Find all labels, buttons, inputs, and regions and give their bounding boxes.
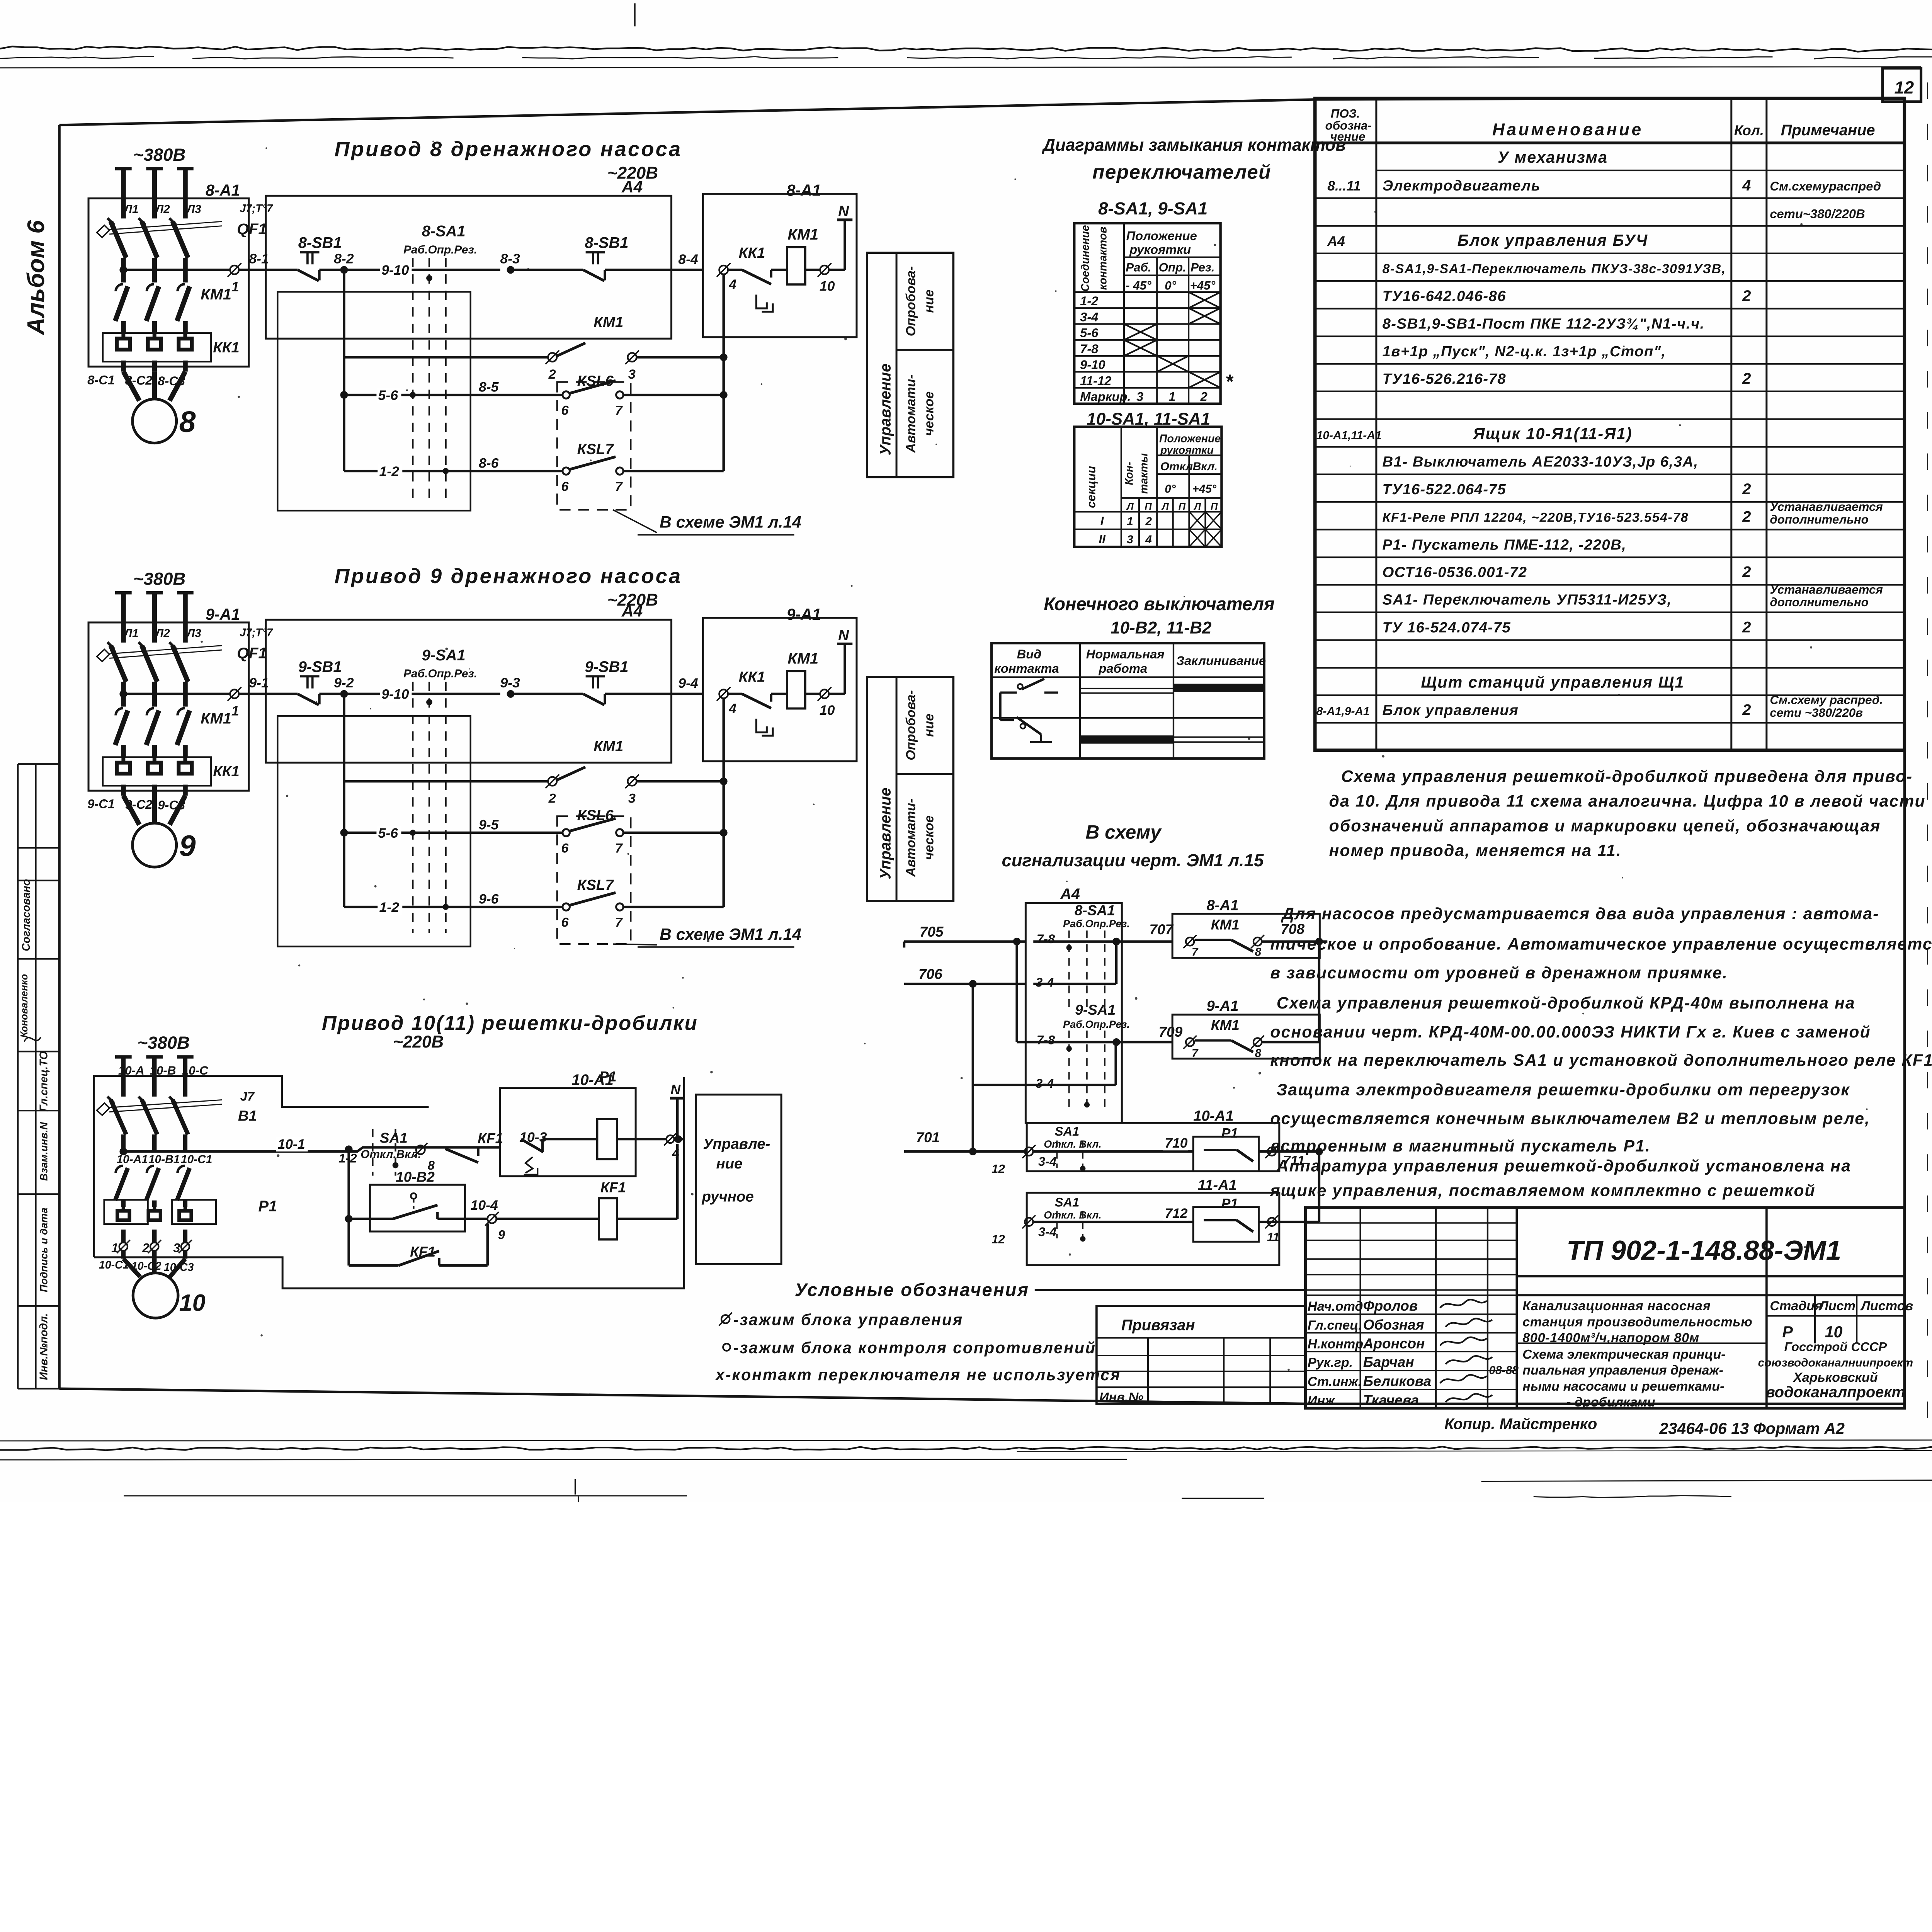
svg-text:КК1: КК1 <box>213 339 240 356</box>
svg-text:Кол.: Кол. <box>1734 122 1764 138</box>
svg-text:Рез.: Рез. <box>1190 261 1215 274</box>
svg-text:кнопок на переключатель SA1: кнопок на переключатель SA1 и установкой… <box>1270 1051 1932 1070</box>
svg-text:1: 1 <box>231 703 239 718</box>
svg-text:Коноваленко: Коноваленко <box>19 974 30 1038</box>
neutral N (drive 8) <box>843 220 847 270</box>
svg-text:Л2: Л2 <box>155 627 170 640</box>
svg-text:9-А1: 9-А1 <box>206 605 240 623</box>
svg-text:8-SB1: 8-SB1 <box>585 235 629 252</box>
svg-text:J7;T°7: J7;T°7 <box>240 627 273 639</box>
svg-text:8-2: 8-2 <box>334 251 354 266</box>
svg-text:Заклинивание: Заклинивание <box>1176 653 1266 668</box>
svg-text:1-2: 1-2 <box>1080 294 1098 308</box>
svg-text:-зажим блока контроля сопротив: -зажим блока контроля сопротивлений <box>733 1339 1096 1357</box>
svg-text:Схема управления решеткой-дро: Схема управления решеткой-дробилкой прив… <box>1341 767 1913 786</box>
svg-text:8-SA1: 8-SA1 <box>422 223 466 240</box>
svg-text:Электродвигатель: Электродвигатель <box>1383 177 1541 194</box>
svg-text:9-10: 9-10 <box>381 687 409 702</box>
svg-text:В схему: В схему <box>1085 821 1162 843</box>
svg-text:3-4: 3-4 <box>1038 1225 1056 1239</box>
svg-text:7-8: 7-8 <box>1037 1033 1055 1047</box>
svg-text:Альбом 6: Альбом 6 <box>22 220 49 336</box>
svg-text:08-88: 08-88 <box>1489 1364 1519 1377</box>
binding table (Привязан) <box>1097 1306 1306 1404</box>
svg-text:Аронсон: Аронсон <box>1363 1335 1425 1351</box>
mode table (Управление/Опробование/Автоматическое) drive 9 <box>867 677 953 901</box>
svg-text:1: 1 <box>1168 389 1175 404</box>
svg-text:8: 8 <box>179 405 196 439</box>
svg-text:встроенным в магнитный пуск: встроенным в магнитный пускатель Р1. <box>1270 1137 1651 1155</box>
thermal relay KK1 (drive 9) <box>103 757 211 786</box>
thermal relay KK1 (drive 8) <box>103 333 211 362</box>
svg-text:SA1: SA1 <box>1055 1195 1080 1209</box>
control rung wire 10-1 <box>119 1148 127 1155</box>
svg-text:5-6: 5-6 <box>1080 326 1099 340</box>
svg-text:I: I <box>1100 514 1104 528</box>
svg-text:9-3: 9-3 <box>500 675 520 690</box>
svg-text:8-А1: 8-А1 <box>787 181 821 199</box>
svg-text:КМ1: КМ1 <box>787 650 818 667</box>
svg-text:такты: такты <box>1138 453 1150 494</box>
legend line: зажим блока управления <box>721 1315 730 1323</box>
svg-text:Конечного выключателя: Конечного выключателя <box>1044 594 1274 614</box>
svg-text:Госстрой СССР: Госстрой СССР <box>1784 1339 1887 1354</box>
svg-text:Фролов: Фролов <box>1363 1298 1418 1314</box>
svg-text:В схеме ЭМ1 л.14: В схеме ЭМ1 л.14 <box>660 925 801 944</box>
svg-text:-зажим блока управления: -зажим блока управления <box>733 1311 963 1329</box>
svg-text:1: 1 <box>1127 515 1133 528</box>
svg-text:Откл.: Откл. <box>1160 460 1196 473</box>
sheet number box 12 <box>1883 68 1921 102</box>
svg-text:8-1: 8-1 <box>249 251 269 266</box>
svg-text:- дробилками: - дробилками <box>1566 1395 1655 1410</box>
svg-text:В1- Выключатель АЕ2033-10УЗ,J: В1- Выключатель АЕ2033-10УЗ,Jр 6,3А, <box>1383 454 1699 470</box>
svg-text:2: 2 <box>1200 389 1207 404</box>
svg-text:1в+1р „Пуск", N2-ц.к. 1з+1р „С: 1в+1р „Пуск", N2-ц.к. 1з+1р „Стоп", <box>1383 343 1666 360</box>
svg-text:4: 4 <box>1742 177 1751 194</box>
svg-text:Щит станций управления Щ1: Щит станций управления Щ1 <box>1421 673 1684 691</box>
svg-text:Защита электродвигателя реше: Защита электродвигателя решетки-дробилки… <box>1277 1080 1850 1099</box>
misc table underlines <box>1316 170 1373 171</box>
svg-text:7-8: 7-8 <box>1080 342 1099 356</box>
svg-text:ТУ16-522.064-75: ТУ16-522.064-75 <box>1383 481 1507 498</box>
row 2 state bars <box>1080 735 1173 743</box>
svg-text:КК1: КК1 <box>739 669 765 685</box>
level contact wire 1-2 / 8-6 <box>342 395 346 471</box>
svg-text:2: 2 <box>1145 515 1152 528</box>
svg-text:1-2: 1-2 <box>379 900 400 915</box>
svg-text:2: 2 <box>1742 702 1751 719</box>
svg-text:КSL7: КSL7 <box>577 877 614 893</box>
svg-text:9-1: 9-1 <box>249 675 269 690</box>
svg-text:QF1: QF1 <box>237 221 267 238</box>
svg-text:10-А1,11-А1: 10-А1,11-А1 <box>1316 429 1382 442</box>
svg-text:712: 712 <box>1165 1206 1188 1221</box>
svg-text:Р: Р <box>1782 1323 1793 1341</box>
svg-text:8...11: 8...11 <box>1327 178 1361 194</box>
svg-text:3-4: 3-4 <box>1038 1154 1056 1168</box>
svg-text:9: 9 <box>179 830 196 863</box>
svg-text:Л: Л <box>1126 501 1134 512</box>
svg-text:3: 3 <box>1136 389 1143 404</box>
svg-text:Откл. Вкл.: Откл. Вкл. <box>1044 1138 1101 1150</box>
supply terminals L1 L2 L3 (drive 8) <box>115 167 132 171</box>
level contact wire 5-6 / 9-5 <box>342 781 346 833</box>
svg-text:Откл.Вкл.: Откл.Вкл. <box>361 1148 421 1161</box>
svg-text:КМ1: КМ1 <box>594 738 623 755</box>
svg-text:8-А1,9-А1: 8-А1,9-А1 <box>1316 705 1370 718</box>
svg-text:работа: работа <box>1099 661 1148 675</box>
svg-text:N: N <box>670 1082 681 1097</box>
svg-text:тическое и опробование. Автома: тическое и опробование. Автоматическое у… <box>1270 935 1932 953</box>
svg-text:2: 2 <box>1742 481 1751 498</box>
svg-text:8: 8 <box>1255 1047 1262 1060</box>
svg-text:Согласовано: Согласовано <box>20 879 32 951</box>
svg-text:основании черт. КРД-40М-00.0: основании черт. КРД-40М-00.00.000ЭЗ НИКТ… <box>1270 1023 1871 1041</box>
svg-text:Ящик 10-Я1(11-Я1): Ящик 10-Я1(11-Я1) <box>1473 425 1632 443</box>
bus to lower rungs (drive 10) <box>345 1145 353 1153</box>
svg-text:7: 7 <box>615 841 623 855</box>
main title block frame <box>1305 1207 1904 1408</box>
svg-text:J7;T°7: J7;T°7 <box>240 202 273 215</box>
svg-text:2: 2 <box>548 367 556 382</box>
svg-text:7: 7 <box>615 479 623 494</box>
svg-text:10-4: 10-4 <box>471 1197 498 1213</box>
svg-text:Привод 8 дренажного насоса: Привод 8 дренажного насоса <box>335 138 682 161</box>
svg-text:5-6: 5-6 <box>378 825 398 841</box>
svg-text:обозначений аппаратов и марк: обозначений аппаратов и маркировки цепей… <box>1329 816 1881 835</box>
svg-text:7: 7 <box>615 915 623 930</box>
svg-text:ческое: ческое <box>922 391 936 436</box>
svg-text:номер привода, меняется на: номер привода, меняется на 11. <box>1329 842 1622 860</box>
svg-text:Управление: Управление <box>877 364 894 456</box>
svg-text:8-С1: 8-С1 <box>87 372 115 387</box>
svg-text:Маркир.: Маркир. <box>1080 389 1131 404</box>
svg-text:Инв.№: Инв.№ <box>1099 1390 1143 1405</box>
svg-text:9-С1: 9-С1 <box>87 797 115 811</box>
svg-text:707: 707 <box>1149 922 1173 937</box>
svg-text:9-SB1: 9-SB1 <box>585 658 629 675</box>
svg-text:Л: Л <box>1161 501 1169 512</box>
svg-text:Положение: Положение <box>1159 432 1221 445</box>
scan noise: top broken line <box>0 57 154 59</box>
svg-text:9-10: 9-10 <box>1080 357 1105 372</box>
svg-text:QF1: QF1 <box>237 645 267 662</box>
svg-text:КМ1: КМ1 <box>201 286 231 303</box>
svg-text:рукоятки: рукоятки <box>1129 242 1191 257</box>
svg-text:9-2: 9-2 <box>334 675 354 690</box>
svg-text:сети~380/220В: сети~380/220В <box>1770 207 1865 221</box>
right bus 708-709 <box>1317 942 1321 1042</box>
svg-text:Н.контр.: Н.контр. <box>1308 1337 1367 1351</box>
svg-text:переключателей: переключателей <box>1092 161 1271 183</box>
svg-text:секции: секции <box>1084 466 1098 508</box>
svg-text:3-4: 3-4 <box>1036 975 1054 989</box>
svg-text:У механизма: У механизма <box>1498 148 1608 166</box>
svg-text:Л1: Л1 <box>123 203 138 216</box>
svg-text:705: 705 <box>920 924 944 940</box>
manual control box (Управление ручное) <box>696 1095 781 1264</box>
svg-text:10-С: 10-С <box>182 1064 208 1077</box>
reference note "В схеме ЭМ1 л.14" (drive 8) <box>613 510 657 532</box>
svg-text:Аппаратура управления решетк: Аппаратура управления решеткой-дробилкой… <box>1276 1156 1851 1175</box>
svg-text:N: N <box>838 627 849 643</box>
svg-text:2: 2 <box>1742 509 1751 526</box>
svg-text:Р1- Пускатель ПМЕ-112, -220В: Р1- Пускатель ПМЕ-112, -220В, <box>1383 536 1627 553</box>
svg-text:См.схемураспред: См.схемураспред <box>1770 179 1881 193</box>
svg-text:Инв.№подл.: Инв.№подл. <box>37 1313 50 1380</box>
svg-text:3: 3 <box>1127 533 1133 546</box>
scan noise: top thin rule <box>0 67 1921 68</box>
mode table (Управление/Опробование/Автоматическое) drive 8 <box>867 253 953 477</box>
svg-text:N: N <box>838 203 849 219</box>
svg-text:9-6: 9-6 <box>479 891 499 907</box>
svg-text:ящике управления, поставляем: ящике управления, поставляемом комплектн… <box>1269 1181 1815 1200</box>
svg-text:Взам.инв.N: Взам.инв.N <box>38 1122 49 1181</box>
svg-text:ческое: ческое <box>922 815 936 860</box>
svg-text:10-А1: 10-А1 <box>1193 1107 1234 1124</box>
terminal 8 (drive 10) <box>416 1145 425 1154</box>
svg-text:5-6: 5-6 <box>378 388 398 403</box>
P1 latch contact (drive 10) <box>521 1139 544 1152</box>
sheet frame <box>60 98 1905 125</box>
level contact wire 5-6 / 8-5 <box>342 357 346 395</box>
svg-text:2: 2 <box>1742 564 1751 581</box>
svg-text:3: 3 <box>628 791 636 806</box>
svg-text:8-SA1,9-SA1-Переключатель ПКУЗ: 8-SA1,9-SA1-Переключатель ПКУЗ-38с-3091У… <box>1383 262 1726 276</box>
svg-text:Опр.: Опр. <box>1159 261 1186 274</box>
svg-text:7: 7 <box>615 403 623 418</box>
svg-text:Барчан: Барчан <box>1363 1354 1414 1370</box>
svg-text:Р1: Р1 <box>1221 1126 1238 1141</box>
svg-text:7-8: 7-8 <box>1037 932 1055 946</box>
row 1 state bars <box>1080 687 1173 689</box>
svg-text:ручное: ручное <box>702 1189 754 1205</box>
svg-text:706: 706 <box>918 966 942 982</box>
svg-text:Ткачева: Ткачева <box>1363 1392 1419 1408</box>
svg-text:ными насосами и решетками-: ными насосами и решетками- <box>1522 1379 1724 1394</box>
neutral N (drive 9) <box>843 644 847 694</box>
svg-text:7: 7 <box>1192 1047 1199 1060</box>
svg-text:дополнительно: дополнительно <box>1770 595 1868 609</box>
svg-text:10-1: 10-1 <box>277 1136 305 1152</box>
svg-text:11-А1: 11-А1 <box>1198 1177 1237 1194</box>
svg-text:3-4: 3-4 <box>1036 1076 1054 1090</box>
svg-text:КМ1: КМ1 <box>1211 917 1240 932</box>
svg-text:Автомати-: Автомати- <box>903 374 918 453</box>
svg-text:8-SA1, 9-SA1: 8-SA1, 9-SA1 <box>1098 199 1207 218</box>
svg-text:В1: В1 <box>238 1107 257 1124</box>
component table frame <box>1315 99 1905 750</box>
svg-text:10-В2: 10-В2 <box>396 1169 435 1185</box>
svg-text:ние: ние <box>922 289 936 313</box>
svg-text:10: 10 <box>1825 1323 1843 1341</box>
supply terminals (drive 10) <box>115 1054 132 1059</box>
svg-text:10-А: 10-А <box>118 1064 145 1077</box>
svg-text:чение: чение <box>1330 130 1365 143</box>
electric motor 9 <box>123 796 139 825</box>
svg-text:Р1: Р1 <box>1221 1196 1238 1211</box>
svg-text:Соединение: Соединение <box>1079 225 1092 292</box>
svg-text:10-В2, 11-В2: 10-В2, 11-В2 <box>1111 618 1212 637</box>
svg-text:КF1-Реле РПЛ 12204, ~220В,ТУ1: КF1-Реле РПЛ 12204, ~220В,ТУ16-523.554-7… <box>1383 510 1689 525</box>
svg-text:А4: А4 <box>1327 233 1345 249</box>
dashed box around KSL contacts (drive 8) <box>557 382 631 510</box>
contact symbol row 1 <box>1000 691 1017 694</box>
svg-text:SA1: SA1 <box>1055 1124 1080 1138</box>
svg-text:Рук.гр.: Рук.гр. <box>1308 1355 1353 1370</box>
svg-text:9-SA1: 9-SA1 <box>422 647 466 664</box>
resistance-control sub box (drive 9) <box>277 716 470 947</box>
svg-text:Блок управления БУЧ: Блок управления БУЧ <box>1458 231 1648 249</box>
svg-text:~220В: ~220В <box>607 591 658 610</box>
svg-text:Лист: Лист <box>1818 1299 1855 1313</box>
svg-text:КМ1: КМ1 <box>594 314 623 330</box>
svg-text:сигнализации черт. ЭМ1 л.15: сигнализации черт. ЭМ1 л.15 <box>1002 850 1264 870</box>
svg-text:701: 701 <box>916 1129 940 1145</box>
svg-text:8-SB1,9-SB1-Пост ПКЕ 112-2УЗ¾": 8-SB1,9-SB1-Пост ПКЕ 112-2УЗ¾",N1-ч.ч. <box>1383 316 1705 332</box>
scan noise: bottom dashes <box>1182 1497 1264 1499</box>
svg-text:8-4: 8-4 <box>678 252 698 267</box>
contact symbol row 2 <box>1000 718 1014 721</box>
scan noise: speckles <box>201 641 203 643</box>
svg-text:Раб.: Раб. <box>1126 261 1151 274</box>
svg-text:709: 709 <box>1159 1024 1183 1040</box>
svg-text:х-контакт переключателя не исп: х-контакт переключателя не используется <box>715 1366 1121 1384</box>
svg-text:Раб.Опр.Рез.: Раб.Опр.Рез. <box>1063 1019 1130 1030</box>
svg-text:23464-06 13 Формат А2: 23464-06 13 Формат А2 <box>1659 1420 1845 1437</box>
svg-text:Опробова-: Опробова- <box>903 266 918 337</box>
svg-text:А4: А4 <box>1060 886 1080 903</box>
svg-text:9-А1: 9-А1 <box>1206 998 1238 1014</box>
svg-text:В схеме ЭМ1 л.14: В схеме ЭМ1 л.14 <box>660 513 801 532</box>
svg-text:дополнительно: дополнительно <box>1770 513 1868 526</box>
svg-text:Копир. Майстренко: Копир. Майстренко <box>1444 1415 1597 1432</box>
svg-text:контактов: контактов <box>1097 227 1109 290</box>
svg-text:10-В: 10-В <box>150 1064 176 1077</box>
svg-text:Привязан: Привязан <box>1121 1316 1195 1333</box>
svg-text:6: 6 <box>561 479 569 494</box>
scan edge right broken vertical <box>1927 82 1929 1437</box>
box 10-Ya1 outline (stepped) <box>94 1076 429 1257</box>
svg-text:КК1: КК1 <box>213 763 240 780</box>
svg-text:Блок управления: Блок управления <box>1383 702 1519 719</box>
svg-text:12: 12 <box>992 1162 1005 1176</box>
svg-text:2: 2 <box>548 791 556 806</box>
svg-text:8-SA1: 8-SA1 <box>1075 902 1115 918</box>
svg-text:2: 2 <box>1742 370 1751 387</box>
reference note "В схеме ЭМ1 л.14" (drive 9) <box>613 944 657 945</box>
auxiliary contact KM1 (seal-in, drive 8) <box>342 270 346 357</box>
svg-text:Обозная: Обозная <box>1363 1317 1424 1333</box>
svg-text:Канализационная насосная: Канализационная насосная <box>1522 1299 1711 1313</box>
svg-text:Управление: Управление <box>877 787 894 879</box>
svg-text:в зависимости от уровней в д: в зависимости от уровней в дренажном при… <box>1270 964 1728 982</box>
svg-text:9: 9 <box>498 1227 505 1242</box>
svg-text:0°: 0° <box>1165 279 1176 293</box>
svg-text:Л: Л <box>1193 501 1201 512</box>
svg-text:Л1: Л1 <box>123 627 138 640</box>
vertical bus (drive 9) <box>722 698 725 907</box>
svg-text:КМ1: КМ1 <box>1211 1017 1240 1033</box>
svg-text:Харьковский: Харьковский <box>1793 1370 1878 1385</box>
terminal 4 and N (drive 10) <box>667 1135 674 1143</box>
legend line: зажим блока контроля сопротивлений <box>723 1344 730 1350</box>
title block left small rows <box>1359 1207 1362 1408</box>
svg-text:6: 6 <box>561 841 569 855</box>
svg-text:0°: 0° <box>1165 483 1176 495</box>
svg-text:водоканалпроект: водоканалпроект <box>1766 1384 1905 1401</box>
svg-text:10-С1: 10-С1 <box>181 1153 212 1166</box>
svg-text:2: 2 <box>1742 619 1751 636</box>
svg-text:Диаграммы замыкания контактов: Диаграммы замыкания контактов <box>1041 136 1346 155</box>
signature rows <box>1305 1294 1517 1296</box>
svg-text:- 45°: - 45° <box>1126 279 1151 293</box>
resistance-control sub box (drive 8) <box>277 292 470 510</box>
svg-text:9-SA1: 9-SA1 <box>1075 1002 1116 1018</box>
svg-text:ТП 902-1-148.88-ЭМ1: ТП 902-1-148.88-ЭМ1 <box>1566 1235 1841 1266</box>
wire 9-10 label (drive 9) <box>380 687 412 702</box>
svg-text:Для насосов предусматриваетс: Для насосов предусматривается два вида у… <box>1281 905 1879 923</box>
thermal elements (drive 10) <box>104 1200 148 1224</box>
svg-text:сети ~380/220в: сети ~380/220в <box>1770 706 1863 719</box>
svg-text:Подпись и дата: Подпись и дата <box>38 1207 49 1292</box>
svg-text:Л3: Л3 <box>186 203 202 216</box>
scan noise: bottom rules <box>0 1440 1932 1441</box>
svg-text:~220В: ~220В <box>607 163 658 182</box>
svg-text:1: 1 <box>231 279 239 294</box>
svg-text:6: 6 <box>561 403 569 418</box>
svg-text:+45°: +45° <box>1192 483 1217 495</box>
terminal 10 (drive 9) <box>820 689 829 698</box>
svg-text:Условные обозначения: Условные обозначения <box>795 1280 1029 1300</box>
svg-text:10-А1: 10-А1 <box>117 1153 148 1166</box>
svg-text:осуществляется конечным выкл: осуществляется конечным выключателем В2 … <box>1270 1109 1870 1128</box>
svg-text:8-А1: 8-А1 <box>1206 897 1238 914</box>
svg-text:4: 4 <box>728 277 736 292</box>
svg-text:Управле-: Управле- <box>703 1136 770 1152</box>
svg-text:10: 10 <box>820 278 835 294</box>
electric motor 8 <box>123 372 139 401</box>
svg-text:Кон-: Кон- <box>1123 462 1136 485</box>
svg-text:~380В: ~380В <box>133 145 185 165</box>
svg-text:9-4: 9-4 <box>678 675 698 691</box>
svg-text:ТУ16-642.046-86: ТУ16-642.046-86 <box>1383 288 1507 304</box>
terminal 4 (drive 8) <box>719 265 728 274</box>
svg-text:8-3: 8-3 <box>500 251 520 266</box>
svg-text:8-А1: 8-А1 <box>206 181 240 199</box>
svg-text:9-SB1: 9-SB1 <box>298 658 342 675</box>
terminal 10 (drive 8) <box>820 265 829 274</box>
svg-text:10: 10 <box>179 1290 206 1316</box>
svg-text:Л3: Л3 <box>186 627 202 640</box>
svg-text:КК1: КК1 <box>739 245 765 261</box>
svg-text:9-5: 9-5 <box>479 817 499 833</box>
svg-text:ТУ 16-524.074-75: ТУ 16-524.074-75 <box>1383 619 1511 636</box>
svg-text:ние: ние <box>716 1155 742 1172</box>
svg-text:3-4: 3-4 <box>1080 310 1098 324</box>
svg-text:КМ1: КМ1 <box>201 710 231 727</box>
svg-text:11: 11 <box>1267 1230 1279 1244</box>
svg-text:Нормальная: Нормальная <box>1086 647 1165 661</box>
svg-text:Гл.спец.ТО: Гл.спец.ТО <box>37 1051 50 1112</box>
svg-text:контакта: контакта <box>994 661 1059 675</box>
svg-text:10-В1: 10-В1 <box>148 1153 180 1166</box>
level contact wire 1-2 / 9-6 <box>342 833 346 907</box>
svg-text:П: П <box>1211 501 1218 512</box>
svg-text:Ст.инж.: Ст.инж. <box>1308 1374 1362 1389</box>
document number cell ТП 902-1-148.88-ЭМ1 <box>1517 1275 1905 1278</box>
